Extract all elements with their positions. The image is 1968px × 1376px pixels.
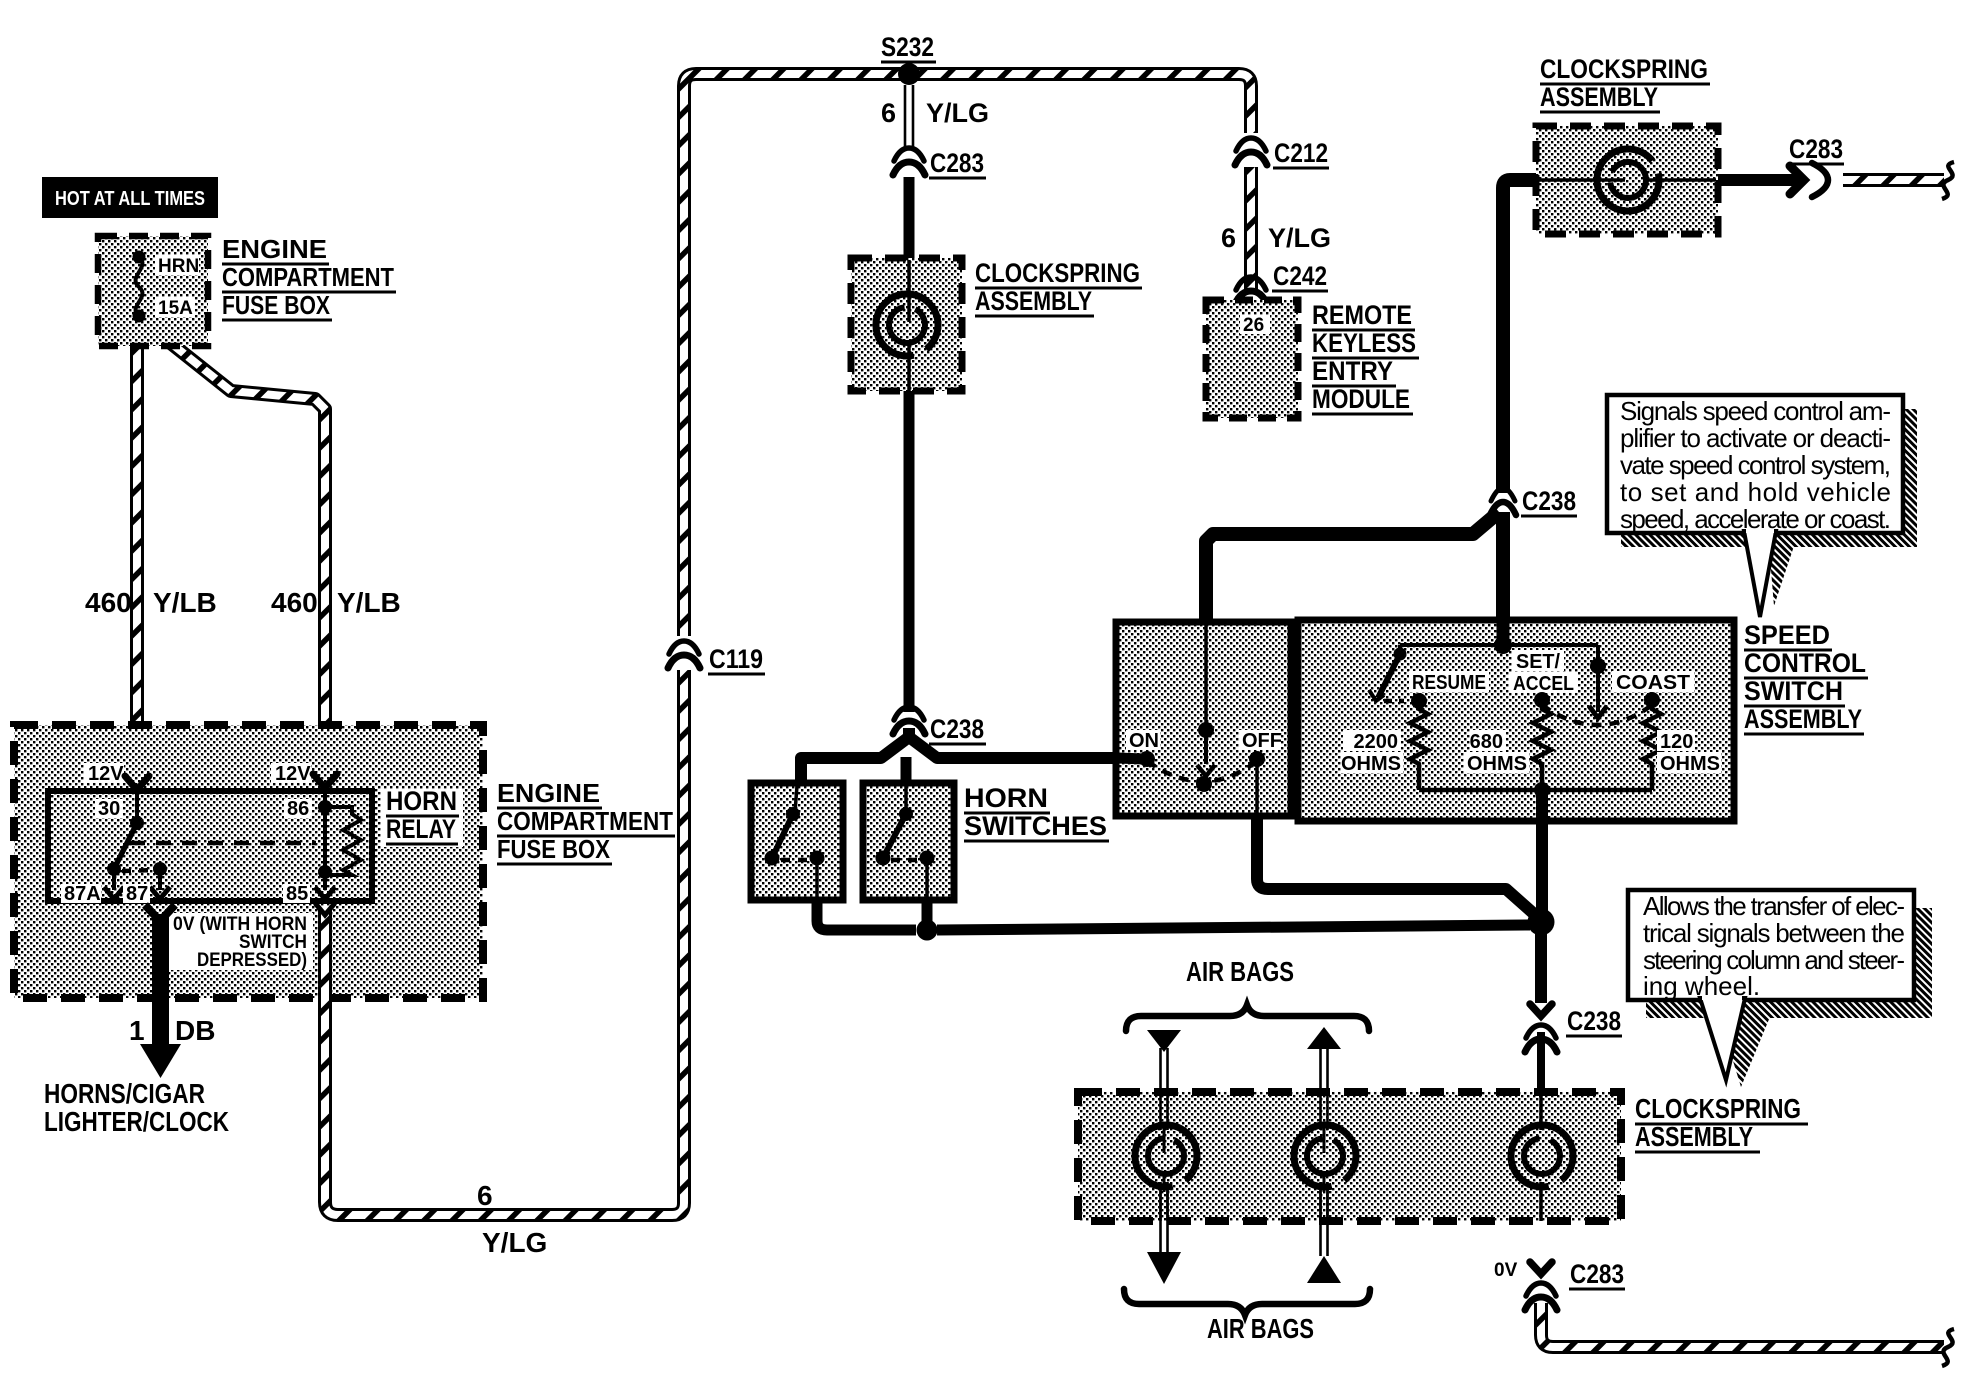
speed control internal bus (1400, 636, 1598, 654)
clockspring coil lower left (1135, 1094, 1197, 1221)
svg-text:1: 1 (129, 1015, 145, 1046)
relay coil (315, 791, 361, 899)
svg-text:trical signals between the: trical signals between the (1643, 918, 1905, 948)
connector C238 (middle) (893, 707, 986, 744)
connector C119 (668, 636, 765, 674)
svg-text:30: 30 (98, 798, 120, 820)
air bag wire right (out) (1307, 1027, 1341, 1124)
svg-text:C238: C238 (1567, 1006, 1621, 1036)
svg-text:680: 680 (1470, 731, 1503, 753)
wire horn switches junction to steering junction (937, 925, 1530, 930)
clockspring coil (top right) (1538, 149, 1716, 211)
svg-text:ASSEMBLY: ASSEMBLY (975, 286, 1092, 316)
svg-text:Y/LB: Y/LB (153, 587, 217, 618)
relay pin 87A contact and arrow (104, 862, 124, 899)
on-off switch contacts (1126, 625, 1282, 792)
horn switch right contacts (876, 786, 935, 898)
svg-text:CLOCKSPRING: CLOCKSPRING (1540, 54, 1708, 84)
svg-text:COAST: COAST (1616, 672, 1690, 694)
remote keyless entry module box (1206, 300, 1298, 418)
wire C238 to speed control assembly (1496, 512, 1510, 640)
connector C283 (lower) (1525, 1259, 1625, 1310)
svg-text:Allows the transfer of elec-: Allows the transfer of elec- (1643, 891, 1905, 921)
svg-text:LIGHTER/CLOCK: LIGHTER/CLOCK (44, 1106, 229, 1137)
connector C238 (right) (1490, 486, 1577, 516)
svg-text:120: 120 (1660, 731, 1693, 753)
svg-text:Y/LG: Y/LG (482, 1227, 547, 1258)
svg-text:SWITCHES: SWITCHES (964, 811, 1107, 841)
hot-at-all-times banner (42, 177, 218, 218)
svg-text:ASSEMBLY: ASSEMBLY (1540, 82, 1658, 112)
svg-text:C283: C283 (1789, 134, 1843, 164)
svg-text:DB: DB (175, 1015, 215, 1046)
svg-text:OHMS: OHMS (1467, 753, 1527, 775)
connector C283 (top middle) (893, 148, 986, 178)
relay switch arm (114, 823, 137, 869)
speech bubble 1 shadow (1621, 409, 1917, 547)
arrow into relay pin 86 (313, 774, 337, 788)
set/accel contact and resistor 680 ohms (1464, 650, 1578, 790)
horn relay outer dashed box (engine compartment fuse box) (14, 725, 483, 998)
svg-text:CLOCKSPRING: CLOCKSPRING (975, 258, 1140, 288)
svg-text:REMOTE: REMOTE (1312, 300, 1412, 330)
svg-text:SPEED: SPEED (1744, 620, 1830, 650)
label 0V with horn switch depressed (167, 913, 313, 971)
air bag wire left (in) (1147, 1030, 1181, 1124)
air bags brace (top) (1126, 1005, 1369, 1031)
connector C238 (lower) (1525, 1004, 1622, 1052)
svg-text:CONTROL: CONTROL (1744, 648, 1866, 678)
node S232 (881, 32, 936, 85)
svg-text:26: 26 (1243, 315, 1264, 336)
svg-text:15A: 15A (158, 298, 193, 319)
svg-text:to set and hold vehicle: to set and hold vehicle (1620, 477, 1891, 507)
relay pin labels (61, 798, 312, 905)
svg-text:CLOCKSPRING: CLOCKSPRING (1635, 1093, 1801, 1124)
speech bubble 1 (1607, 395, 1903, 617)
clockspring coil lower right (1511, 1094, 1573, 1221)
svg-text:ENGINE: ENGINE (497, 778, 600, 808)
svg-text:12V: 12V (275, 763, 311, 785)
svg-text:Signals speed control am-: Signals speed control am- (1620, 396, 1891, 426)
clockspring assembly box (lower) (1078, 1092, 1621, 1221)
label 6 Y/LG right (1221, 223, 1331, 253)
clockspring coil lower middle (1294, 1094, 1356, 1221)
relay dashed actuator line (130, 841, 316, 846)
speech bubble 2 (1628, 890, 1914, 1080)
horn relay inner box (48, 791, 372, 901)
wire C238 to clockspring (lower) (1537, 1032, 1545, 1092)
wire horn switch right to junction (922, 899, 933, 925)
wire 460 Y/LB right (fuse to relay pin 86) (143, 321, 325, 781)
svg-text:C238: C238 (930, 714, 984, 744)
arrow into relay pin 30 (125, 776, 149, 790)
wire on contact to horn circuit (1118, 758, 1144, 759)
connector C283 (top right) (1788, 134, 1844, 197)
label horn switches (964, 783, 1109, 841)
air bag wire left lower (out) (1147, 1190, 1181, 1284)
svg-text:6: 6 (1221, 223, 1236, 253)
resume contact and resistor 2200 ohms (1341, 671, 1489, 790)
connector C212 (1235, 133, 1329, 168)
svg-text:C212: C212 (1274, 138, 1328, 168)
svg-text:OFF: OFF (1242, 730, 1282, 752)
svg-text:COMPARTMENT: COMPARTMENT (497, 806, 673, 836)
wire hatched (top right edge) (1843, 162, 1954, 199)
svg-text:OHMS: OHMS (1341, 753, 1401, 775)
wire speed control to clockspring (top right) (1503, 180, 1536, 495)
on-off switch box (1116, 622, 1291, 816)
svg-text:ENTRY: ENTRY (1312, 356, 1393, 386)
svg-text:85: 85 (286, 883, 308, 905)
wire 460 Y/LB left (fuse to relay pin 30) (130, 320, 144, 783)
junction node horn switches (917, 920, 938, 941)
svg-text:OHMS: OHMS (1660, 753, 1720, 775)
resume switch arm (1369, 645, 1407, 701)
relay pin 87 contact and arrow (150, 862, 170, 899)
clockspring coil (middle) (876, 260, 938, 391)
svg-text:vate speed control system,: vate speed control system, (1620, 450, 1891, 480)
connector C242 (1235, 261, 1328, 304)
label remote keyless entry module (1312, 300, 1419, 414)
svg-text:C238: C238 (1522, 486, 1576, 516)
speech bubble 2 shadow (1646, 908, 1932, 1018)
svg-text:speed, accelerate or coast.: speed, accelerate or coast. (1620, 504, 1891, 534)
svg-text:AIR BAGS: AIR BAGS (1207, 1313, 1314, 1344)
svg-text:C242: C242 (1273, 261, 1327, 291)
wire 6 Y/LG (relay 85 to keyless module, hatched loop) (315, 74, 1251, 1215)
label 460 Y/LB right (271, 587, 401, 618)
svg-text:C119: C119 (709, 644, 763, 674)
svg-text:460: 460 (271, 587, 318, 618)
relay dashed contact link 87A-87 (122, 870, 155, 871)
speed control bottom rail (1419, 782, 1652, 798)
svg-text:C283: C283 (1570, 1259, 1624, 1289)
svg-text:2200: 2200 (1354, 731, 1399, 753)
svg-text:ACCEL: ACCEL (1513, 673, 1574, 695)
svg-text:ing wheel.: ing wheel. (1643, 971, 1760, 1001)
fuse HRN 15A (133, 251, 200, 323)
wire speed control to steering junction (1536, 792, 1548, 916)
wire C238 to on-off switch (1206, 512, 1499, 624)
svg-text:12V: 12V (88, 763, 124, 785)
svg-text:6: 6 (477, 1180, 493, 1211)
svg-text:HOT AT ALL TIMES: HOT AT ALL TIMES (55, 188, 205, 210)
wire into speed control box (1497, 614, 1510, 643)
svg-text:DEPRESSED): DEPRESSED) (197, 950, 307, 971)
air bags brace (bottom) (1124, 1289, 1370, 1315)
label clockspring assembly (lower) (1635, 1093, 1808, 1152)
engine compartment fuse box (top) (98, 236, 208, 346)
horn switch right box (863, 783, 954, 900)
label clockspring assembly (middle) (975, 258, 1142, 316)
wire C238 split to horn switches and on-off switch (801, 728, 1120, 786)
svg-text:ENGINE: ENGINE (222, 234, 327, 264)
svg-text:HRN: HRN (158, 256, 199, 277)
air bag wire right lower (in) (1307, 1190, 1341, 1283)
speed control switch assembly box (1298, 620, 1734, 821)
svg-text:MODULE: MODULE (1312, 384, 1410, 414)
steering junction node (1528, 909, 1555, 936)
svg-text:0V: 0V (1494, 1260, 1518, 1281)
svg-text:RESUME: RESUME (1412, 672, 1486, 694)
wire clockspring to C238 (904, 391, 915, 712)
horn switch left contacts (765, 786, 825, 898)
coast contact and resistor 120 ohms (1612, 671, 1721, 790)
svg-text:6: 6 (881, 98, 896, 128)
svg-text:ASSEMBLY: ASSEMBLY (1635, 1121, 1753, 1152)
set-coast wiper arm (1542, 645, 1652, 725)
label engine compartment fuse box (top) (222, 234, 396, 320)
svg-text:COMPARTMENT: COMPARTMENT (222, 262, 394, 292)
wire 1 DB thick arrow from pin 87 (140, 905, 181, 1078)
svg-text:RELAY: RELAY (386, 814, 456, 844)
clockspring assembly box (middle) (851, 258, 962, 391)
label 6 Y/LG top middle (881, 98, 989, 128)
svg-text:C283: C283 (930, 148, 984, 178)
svg-text:AIR BAGS: AIR BAGS (1186, 956, 1294, 987)
wire off contact to steering junction (1257, 759, 1533, 913)
svg-text:FUSE BOX: FUSE BOX (497, 834, 611, 864)
svg-text:87: 87 (126, 883, 148, 905)
svg-text:Y/LB: Y/LB (337, 587, 401, 618)
label horns/cigar lighter/clock (44, 1078, 229, 1137)
svg-text:Y/LG: Y/LG (1268, 223, 1331, 253)
svg-text:FUSE BOX: FUSE BOX (222, 290, 331, 320)
svg-text:HORN: HORN (386, 786, 457, 816)
wire horn switch left to junction (817, 900, 916, 930)
svg-text:plifier to activate or deacti-: plifier to activate or deacti- (1620, 423, 1891, 453)
label 12V right (271, 763, 311, 783)
svg-text:KEYLESS: KEYLESS (1312, 328, 1416, 358)
clockspring assembly box (top right) (1536, 126, 1718, 234)
svg-text:Y/LG: Y/LG (926, 98, 989, 128)
label speed control switch assembly (1744, 620, 1868, 734)
label engine compartment fuse box (relay) (497, 778, 675, 864)
wire hatched (bottom right) (1541, 1303, 1954, 1366)
svg-text:460: 460 (85, 587, 132, 618)
svg-text:86: 86 (287, 798, 309, 820)
svg-text:ON: ON (1129, 730, 1159, 752)
label horn relay (381, 786, 463, 847)
label 12V left (84, 763, 124, 783)
wire C283 to clockspring (904, 177, 915, 260)
label 6 Y/LG bottom (477, 1180, 547, 1258)
svg-text:HORNS/CIGAR: HORNS/CIGAR (44, 1078, 205, 1109)
svg-text:SWITCH: SWITCH (1744, 676, 1843, 706)
label clockspring assembly (top right) (1540, 54, 1710, 112)
horn switch left box (751, 783, 843, 900)
svg-text:S232: S232 (881, 32, 934, 62)
wire 6 Y/LG (S232 to C283, double line) (905, 85, 913, 150)
svg-text:HORN: HORN (964, 783, 1048, 813)
svg-text:SET/: SET/ (1516, 651, 1560, 673)
wire clockspring to C283 (top right) (1718, 174, 1800, 186)
relay pin 30 wire (130, 791, 144, 830)
label 460 Y/LB left (85, 587, 217, 618)
wire junction to C238 (lower) (1535, 930, 1547, 1003)
svg-text:87A: 87A (64, 883, 101, 905)
svg-text:ASSEMBLY: ASSEMBLY (1744, 704, 1862, 734)
label 1 DB (129, 1015, 215, 1046)
